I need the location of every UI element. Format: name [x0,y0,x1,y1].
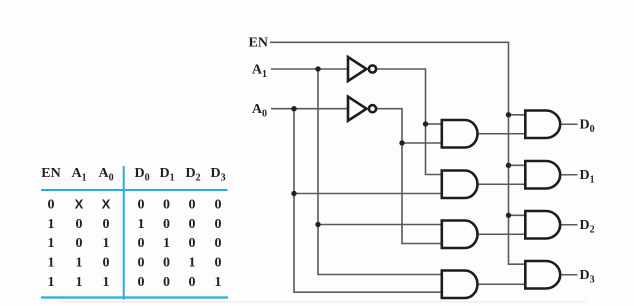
wire: A0 to inverter input [271,108,347,110]
svg-text:1: 1 [138,217,145,232]
wire: A1' branch to gate1 input1 [426,123,442,125]
AND gate G4 (A1·A0) [442,271,478,299]
wire: A0 branch to gate2 input2 [294,193,441,195]
svg-text:A0: A0 [98,166,113,184]
svg-text:1: 1 [189,256,196,271]
node: A1 branch [315,66,320,71]
node: EN to D2 gate [506,213,511,218]
svg-text:0: 0 [138,198,145,213]
svg-text:0: 0 [163,198,170,213]
table header underline (cyan) [41,189,228,191]
wire: A1 branch to gate3 input1 [318,224,441,226]
svg-text:1: 1 [48,236,55,251]
svg-text:1: 1 [48,256,55,271]
svg-text:0: 0 [215,198,222,213]
svg-text:0: 0 [138,256,145,271]
node: A0' to gate1 [399,140,404,145]
wire: A0' branch to gate1 input2 [402,142,441,144]
wire: inverter1 output A1' down to gate2 input1 [377,69,441,175]
svg-text:EN: EN [41,166,60,181]
wire: D3 gate output [561,274,578,276]
wire: gate1 output to D0 gate input2 [478,133,526,135]
faint scan artifact at bottom [58,301,586,303]
svg-text:0: 0 [215,256,222,271]
AND gate for output D3 [525,261,560,289]
wire: EN branch to D0 gate input1 [509,114,526,116]
svg-text:1: 1 [48,217,55,232]
wire: D2 gate output [561,224,578,226]
svg-text:1: 1 [103,275,110,290]
node: A1 to gate3 [315,222,320,227]
svg-text:D2: D2 [185,166,200,184]
wire: D1 gate output [561,174,578,176]
svg-text:1: 1 [76,275,83,290]
wire: EN horizontal and vertical to D3 gate input [270,42,525,264]
junction dots [291,66,511,227]
wire: gate3 output to D2 gate input2 [478,233,526,235]
wire: EN branch to D2 gate input1 [509,214,526,216]
wire: A0 vertical branch to gate4 input2 [294,109,441,293]
wire: D0 gate output [561,123,578,125]
table data rows [48,197,222,291]
svg-text:D0: D0 [134,166,149,184]
svg-text:0: 0 [76,217,83,232]
node: A0 branch [291,106,296,111]
node: A1' to gate1 [423,121,428,126]
svg-text:D1: D1 [159,166,174,184]
svg-text:0: 0 [138,236,145,251]
table bottom rule (cyan) [41,296,228,298]
svg-text:0: 0 [189,217,196,232]
svg-text:0: 0 [163,256,170,271]
svg-text:0: 0 [103,256,110,271]
svg-text:D2: D2 [580,218,595,236]
svg-text:D1: D1 [580,168,595,186]
svg-text:0: 0 [215,217,222,232]
inverter (NOT gate) for A1 [348,57,367,81]
gates [348,57,560,298]
svg-text:0: 0 [103,217,110,232]
inverter (NOT gate) for A0 [348,97,367,121]
svg-text:1: 1 [48,275,55,290]
signal labels [249,36,595,286]
svg-text:0: 0 [189,198,196,213]
node: A0 to gate2 [291,191,296,196]
svg-text:X: X [102,197,111,212]
wire: gate2 output to D1 gate input2 [478,183,526,185]
svg-text:0: 0 [215,236,222,251]
svg-text:0: 0 [76,236,83,251]
svg-text:X: X [75,197,84,212]
svg-text:D3: D3 [210,166,225,184]
svg-text:0: 0 [189,275,196,290]
wire: A1 to inverter input [271,68,347,70]
wire: gate4 output to D3 gate input2 [478,283,526,285]
AND gate for output D2 [525,211,560,239]
svg-text:0: 0 [48,198,55,213]
svg-text:A1: A1 [71,166,86,184]
svg-text:A1: A1 [252,62,267,80]
AND gate for output D0 [525,111,560,139]
svg-text:1: 1 [103,236,110,251]
wire: inverter2 output A0' down to gate3 input2 [377,109,441,244]
wire: EN branch to D1 gate input1 [509,164,526,166]
AND gate G1 (A1'·A0') [442,120,478,148]
node: EN to D1 gate [506,163,511,168]
AND gate G2 (A1'·A0) [442,171,478,199]
svg-text:1: 1 [215,275,222,290]
node: EN to D0 gate [506,112,511,117]
svg-text:0: 0 [138,275,145,290]
svg-text:EN: EN [249,36,268,51]
svg-text:D3: D3 [580,268,595,286]
svg-text:0: 0 [163,217,170,232]
table vertical divider (cyan) [123,166,125,300]
svg-text:0: 0 [163,275,170,290]
svg-text:1: 1 [76,256,83,271]
truth table header row [41,166,225,184]
AND gate for output D1 [525,161,560,189]
svg-text:A0: A0 [252,102,267,120]
svg-text:1: 1 [163,236,170,251]
AND gate G3 (A1·A0') [442,221,478,249]
svg-text:D0: D0 [580,118,595,136]
svg-text:0: 0 [189,236,196,251]
wire: A1 vertical branch to gate4 input1 [318,69,441,275]
